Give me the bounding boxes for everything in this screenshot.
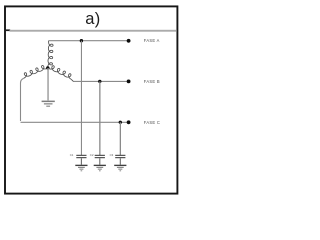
svg-text:FASE B: FASE B [144, 79, 160, 84]
ground below C1 [75, 165, 87, 166]
capacitor C1 plates [76, 155, 86, 156]
ground below C3 [114, 165, 126, 166]
wire left branch down from coil [21, 78, 24, 121]
wire capacitor branch 1 vertical [81, 41, 82, 156]
wire title separator [10, 30, 177, 32]
wire capacitor branch 2 vertical [99, 81, 100, 155]
node FASE A end dot [127, 39, 131, 43]
inductor L2 left winding [24, 66, 47, 79]
wire below C1 [81, 158, 82, 164]
ground below C2 [94, 165, 106, 166]
svg-text:FASE A: FASE A [144, 38, 160, 43]
node FASE B junction [98, 80, 101, 83]
wire FASE A horizontal [49, 40, 129, 42]
ground neutral earth [42, 101, 55, 103]
svg-text:C2: C2 [90, 153, 94, 157]
wire below C3 [120, 158, 121, 164]
node FASE C end dot [127, 120, 131, 124]
svg-text:C3: C3 [110, 153, 114, 157]
node FASE A junction [80, 39, 83, 42]
node FASE C junction [119, 121, 122, 124]
wire capacitor branch 3 vertical [120, 122, 121, 155]
wire FASE B horizontal [73, 80, 128, 82]
wire tick on left border [5, 29, 11, 31]
capacitor C3 plates [115, 155, 125, 156]
inductor L3 right winding [49, 66, 71, 80]
wire FASE C horizontal [21, 121, 129, 123]
svg-text:C1: C1 [70, 153, 74, 157]
svg-text:a): a) [85, 10, 100, 28]
wire neutral to ground [47, 68, 48, 100]
capacitor C2 plates [95, 155, 105, 156]
frame border [5, 6, 177, 193]
wire below C2 [99, 158, 100, 164]
wire right coil to FASE B [71, 79, 73, 81]
svg-text:FASE C: FASE C [144, 120, 160, 125]
inductor L1 top winding [48, 42, 53, 67]
node star center [46, 66, 49, 69]
node FASE B end dot [127, 80, 131, 84]
